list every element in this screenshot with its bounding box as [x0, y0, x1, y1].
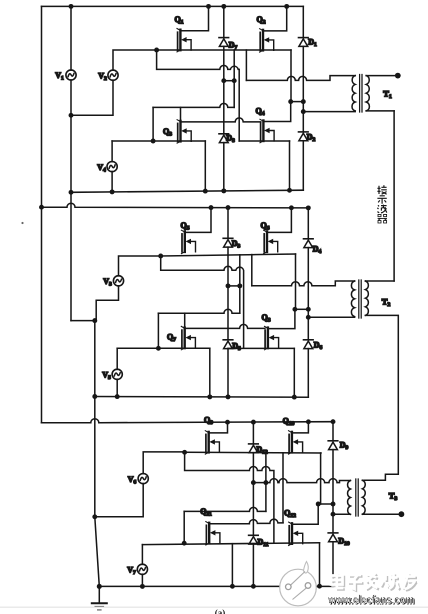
wire: D3 vertical upper	[227, 208, 229, 239]
wire: D7 anode stem to source rail	[223, 46, 225, 50]
node: dot V4 top junction	[151, 139, 156, 144]
wire: Q2 drain lead	[263, 6, 287, 31]
wire: D2 to bottom rail corner	[302, 141, 304, 191]
node: dot mid rail right end	[306, 205, 311, 210]
node: dot right pair2 left	[292, 307, 297, 312]
wire: mid cluster vertical x239.8	[239, 255, 241, 313]
transistor Q1	[177, 29, 191, 52]
wire: T3 secondary top link	[362, 479, 365, 481]
wire: right vertical bus T1 to T2	[393, 111, 395, 281]
node: dot V2 bottom junction	[69, 113, 74, 118]
wire: pair connecting link	[224, 80, 234, 82]
node: dot bottom rail at D8	[221, 188, 226, 193]
source V5	[112, 369, 122, 379]
transistor Q12	[289, 522, 303, 545]
wire: Q1 drain lead	[180, 6, 208, 30]
wire: T2 feed vertical from rail	[251, 255, 253, 286]
wire: ground bottom rail	[99, 585, 333, 587]
diode D1	[302, 6, 304, 37]
wire: right pair2 link	[295, 308, 308, 310]
node: dot bottom rail at Q4 source	[287, 188, 292, 193]
wire: Q4 source line	[239, 140, 289, 142]
wire: top supply rail	[42, 5, 304, 7]
wire: pair2 link	[228, 285, 240, 287]
transistor Q3	[177, 120, 191, 143]
transformer T1 core	[359, 75, 361, 113]
wire: D4-D6 vertical	[307, 317, 309, 340]
wire: V4 bottom lead	[111, 172, 113, 192]
transistor Q10	[289, 431, 303, 454]
wire: Q3 source drop to bottom rail	[204, 141, 206, 191]
logo small rings	[286, 584, 292, 590]
node: dot V5 top junction	[156, 346, 161, 351]
wire: D12 vertical upper	[252, 422, 254, 444]
node: dot bottom rail at Q12 source	[317, 584, 322, 589]
wire: V3 bottom jog to bus	[96, 286, 118, 321]
wire: Q8 drain lead up to pair2	[268, 309, 295, 328]
transistor Q4	[260, 119, 274, 142]
wire: V2 bottom lead to bus	[71, 80, 113, 115]
wire: V5 top lead	[116, 348, 118, 369]
diode D8	[219, 134, 229, 143]
node: dot right pair right	[301, 99, 306, 104]
wire: D7/D8 vertical middle	[223, 50, 225, 134]
wire: Q7-Q8 gate line with hump	[185, 324, 265, 328]
wire: middle supply rail with hump over bus2	[42, 203, 309, 208]
node: dot Q1 drain at top rail	[206, 4, 211, 9]
diode D3	[223, 238, 233, 247]
transformer T3 secondary winding	[362, 480, 365, 514]
wire: T line vertical from source rail	[245, 50, 247, 80]
node: dot V3 at source rail	[158, 254, 163, 259]
node: T1 output terminal dot	[395, 73, 401, 79]
node: dot T1 primary bottom tap	[301, 109, 306, 114]
source V3	[113, 276, 123, 286]
diode D12	[249, 444, 259, 453]
node: dot rail2 at Q8 source	[292, 395, 297, 400]
diode D7	[219, 38, 229, 47]
wire: Q9 drain lead	[209, 422, 228, 433]
label: connect-to-oscilloscope vertical text (接示波器)	[377, 185, 387, 223]
wire: Q3-Q4 gate line with hump	[181, 118, 261, 122]
wire: V5 riser	[157, 313, 159, 348]
node: dot Q2 drain at top rail	[284, 4, 289, 9]
wire: right pair link	[291, 101, 304, 103]
wire: Q8 source drop	[293, 348, 295, 397]
transformer T1 primary winding	[352, 76, 355, 111]
wire: Q4 drain lead up to pair	[263, 102, 290, 122]
node: dot pair-line left	[221, 78, 226, 83]
wire: V3 top lead	[119, 256, 161, 276]
transistor Q8	[265, 326, 279, 349]
wire: V3 gate drive line with humps	[161, 256, 244, 348]
wire: V2 gate drive line with crossover humps	[157, 50, 240, 141]
node: dot rail2 at main vertical	[92, 394, 97, 399]
wire: D3/D5 vertical middle	[227, 255, 229, 340]
svg-text:(a): (a)	[215, 608, 226, 614]
wire: right pair3 link	[318, 503, 333, 505]
wire: ground stem	[98, 586, 100, 603]
node: dot mid rail at Q6 drain	[289, 205, 294, 210]
wire: second bus below V1	[70, 80, 72, 321]
node: dot pair2 right	[237, 283, 242, 288]
wire: D1 vertical to pair	[302, 46, 304, 111]
node: dot pair3 left	[251, 480, 256, 485]
wire: D4 vertical to pair2	[307, 248, 309, 318]
wire: V5 line to cluster with hump	[158, 309, 239, 313]
transformer T2 secondary winding	[365, 281, 368, 315]
diode D11	[249, 535, 259, 544]
node: dot V3 bottom junction	[92, 318, 97, 323]
wire: T2 secondary top to right bus	[365, 280, 394, 282]
wire: section3 lower source rail	[142, 543, 319, 545]
wire: cluster vertical x265.9	[265, 453, 267, 512]
wire: D12 anode stem	[252, 452, 254, 454]
watermark: elecfans logo and text (embossed)	[280, 562, 417, 608]
node: dot V6 at source rail	[182, 450, 187, 455]
watermark chinese characters: white layer	[331, 573, 416, 590]
transistor Q9	[205, 431, 219, 454]
wire: section3 upper source rail	[185, 451, 321, 454]
node: dot bottom rail at V4	[110, 189, 115, 194]
svg-text:www.elecfans.com: www.elecfans.com	[327, 593, 414, 607]
wire: T2 primary bottom line	[308, 316, 354, 318]
char 器	[378, 214, 387, 223]
wire: V4 line to cluster with hump	[153, 103, 234, 107]
logo leaf tip	[304, 562, 309, 574]
wire: V4 riser	[152, 107, 154, 141]
node: dot D7 branch at top rail	[221, 4, 226, 9]
node: dot pair-line right	[232, 78, 237, 83]
wire: V6 gate drive line with humps	[185, 452, 274, 543]
node: dot top rail at V1 bus	[69, 4, 74, 9]
wire: T1 primary bottom line	[303, 111, 355, 113]
node: dot V6 bottom junction	[92, 514, 97, 519]
node: dot rail2 at V5	[115, 394, 120, 399]
stray ink speck left margin	[21, 222, 23, 224]
node: dot rail3 at D12	[251, 420, 256, 425]
wire: D4 vertical upper	[307, 208, 309, 239]
wire: T3 primary bottom line	[333, 513, 350, 515]
wire: section3 supply rail with hump over main vertical	[42, 419, 334, 423]
wire: D6 to bottom rail2 corner	[307, 349, 309, 398]
wire: D8 to bottom rail	[223, 143, 225, 192]
node: dot V2 at source rail	[154, 48, 159, 53]
node: T3 output terminal dot	[399, 511, 405, 517]
wire: Q6 drain lead	[267, 208, 291, 233]
logo white disc	[280, 569, 317, 606]
wire: Q12 drain lead up to pair	[292, 504, 318, 524]
wire: D12/D11 vertical middle	[252, 453, 254, 535]
node: dot bottom rail at V7	[140, 584, 145, 589]
wire: Q7 source drop	[209, 348, 211, 397]
wire: D3 anode stem	[227, 247, 229, 255]
wire: V7 riser	[183, 511, 185, 543]
ground symbol	[92, 602, 107, 604]
wire: T1 secondary bottom to right bus	[366, 110, 394, 112]
node: dot mid rail at D3	[226, 205, 231, 210]
diode D10	[328, 533, 338, 542]
transformer T3 primary winding	[348, 481, 351, 515]
node: dot bottom rail at Q3 source	[203, 189, 208, 194]
faint page edge line	[0, 606, 428, 608]
wire: T2 secondary bottom to T3	[365, 315, 398, 480]
wire: V6 top lead	[143, 452, 184, 474]
node: dot rail3 at Q9 drain	[225, 420, 230, 425]
wire: V7 top lead	[141, 545, 143, 565]
transistor Q2	[260, 29, 274, 52]
watermark chinese characters 电子发烧友 : shadow layer	[333, 574, 418, 591]
wire: T2 primary feed line with humps	[252, 281, 355, 286]
node: dot bottom rail at D11	[251, 584, 256, 589]
wire: T3 secondary bottom to terminal	[362, 513, 400, 515]
transistor Q5	[181, 230, 195, 253]
wire: outer left bus	[41, 6, 43, 422]
node: dot right pair3 right	[331, 502, 336, 507]
wire: D9-D10 vertical	[332, 514, 334, 533]
wire: Q12 source drop	[319, 543, 321, 586]
node: dot bottom rail at ground	[97, 584, 102, 589]
node: dot bottom rail at bus2	[69, 190, 74, 195]
diode D2	[299, 132, 309, 141]
wire: bottom rail section1	[71, 190, 303, 192]
node: dot right pair left	[288, 99, 293, 104]
node: dot rail3 at Q10 drain	[306, 419, 311, 424]
wire: Q8 source line	[228, 347, 294, 349]
wire: D10 to bottom rail corner	[332, 542, 334, 587]
source V7	[137, 564, 147, 574]
transistor Q6	[264, 230, 278, 253]
wire: Q11 source drop	[231, 544, 233, 587]
source V6	[138, 474, 148, 484]
char 接	[377, 185, 386, 194]
wire: bus2 corner into main vertical	[71, 320, 95, 322]
logo stem lines	[291, 572, 306, 586]
diode D9	[328, 441, 338, 450]
source V4	[107, 162, 117, 172]
wire: V6 bottom jog to main vertical	[95, 484, 143, 517]
source V1	[66, 70, 76, 80]
wire: T3 feed line from pair3 with humps	[266, 479, 351, 483]
transformer T2 core	[358, 280, 360, 318]
wire: second bus upper segment	[70, 6, 72, 70]
wire: V5 bottom lead	[116, 379, 118, 397]
wire: D7/D8 vertical upper	[223, 6, 225, 37]
transformer T1 secondary winding	[366, 76, 369, 111]
transistor Q7	[181, 326, 195, 349]
node: dot V7 top junction	[182, 541, 187, 546]
node: dot pair2 left	[226, 283, 231, 288]
wire: D9 vertical to pair3	[332, 450, 334, 515]
wire: D1-D2 vertical	[302, 112, 304, 132]
node: dot rail2 at Q7 source	[207, 394, 212, 399]
wire: Q6 source drop	[295, 254, 297, 309]
wire: T1 secondary top to terminal	[366, 75, 397, 77]
wire: Q10 drain lead	[292, 422, 309, 433]
wire: mid cluster vertical x234	[233, 50, 235, 107]
wire: Q10 source drop	[320, 453, 322, 504]
node: dot rail3 at D9	[331, 419, 336, 424]
node: dot T2 primary bottom tap	[306, 315, 311, 320]
wire: V7 line to cluster with hump	[184, 507, 266, 511]
wire: pair3 link	[253, 482, 266, 484]
wire: Q11-Q12 gate line with humps	[209, 519, 283, 524]
wire: bottom rail section2	[95, 396, 308, 399]
node: dot rail2 at D5	[226, 394, 231, 399]
node: dot mid rail at Q5 drain	[209, 205, 214, 210]
node: dot bottom rail at Q11 source	[230, 584, 235, 589]
diode D4	[304, 239, 314, 248]
wire: upper source rail section1	[157, 49, 291, 51]
transistor Q11	[206, 522, 220, 545]
wire: T1 primary feed line with humps	[246, 76, 355, 81]
node: dot right pair2 right	[306, 307, 311, 312]
wire: Q3 source rail from V4	[112, 140, 205, 142]
node: dot pair3 right	[263, 480, 268, 485]
wire: vertical x283 from rail to gate line	[282, 453, 284, 523]
diode D6	[304, 340, 314, 349]
diode D5	[223, 340, 233, 349]
wire: D5 to bottom rail2	[227, 349, 229, 397]
wire: Q3 drain riser	[180, 107, 182, 121]
wire: main left vertical to ground	[95, 321, 100, 587]
wire: Q4 source drop	[289, 141, 291, 191]
wire: V2 top lead to source rail	[113, 50, 157, 70]
node: dot T3 primary bottom tap	[331, 512, 336, 517]
wire: V4 top lead	[111, 141, 113, 162]
wire: V7 bottom lead	[141, 574, 143, 586]
wire: Q2 source drop	[290, 50, 292, 102]
wire: Q5 drain lead	[185, 208, 211, 233]
wire: Q7 source rail from V5	[117, 347, 210, 349]
transformer T3 core	[355, 479, 357, 516]
source V2	[108, 70, 118, 80]
wire: D9 vertical upper	[332, 422, 334, 441]
node: dot mid rail at outer bus	[39, 205, 44, 210]
node: dot right pair3 left	[316, 502, 321, 507]
char 波	[377, 205, 386, 213]
wire: section2 upper source rail	[161, 254, 296, 256]
wire: D11 to bottom rail	[252, 544, 254, 586]
transformer T2 primary winding	[351, 281, 354, 317]
char 示	[377, 196, 386, 204]
wire: Q7 drain riser	[184, 313, 186, 327]
